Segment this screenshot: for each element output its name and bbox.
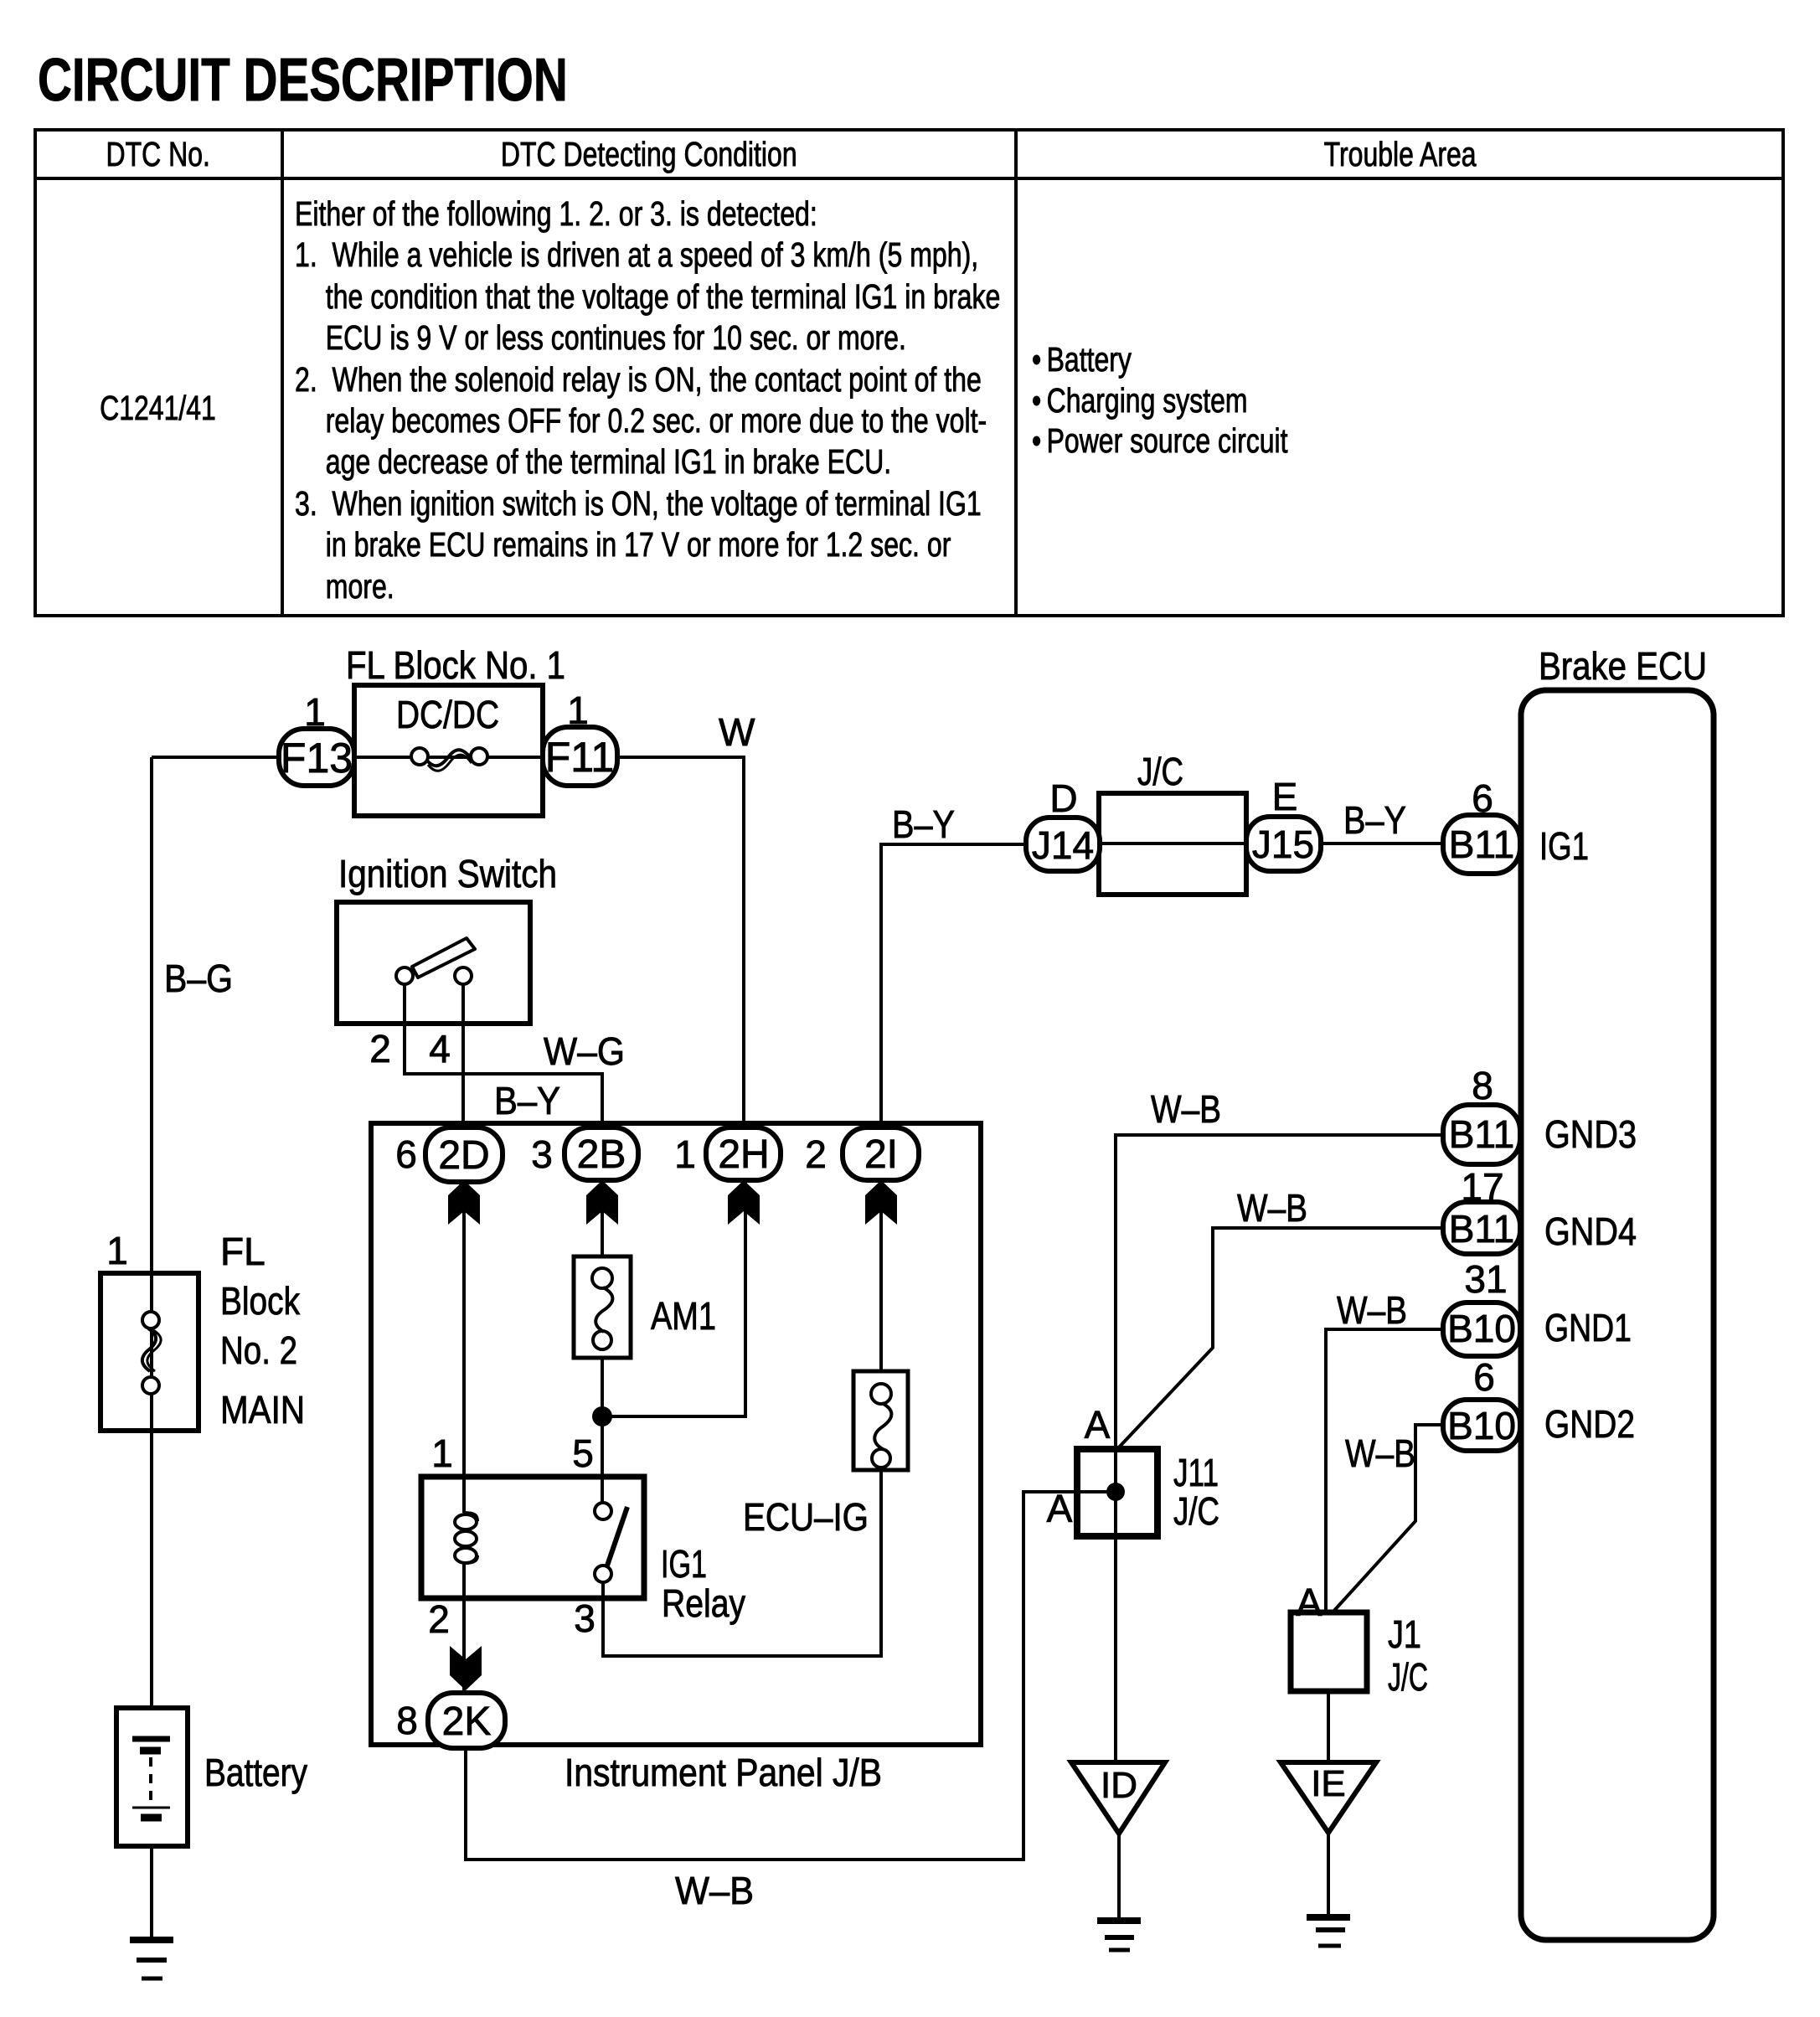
svg-text:GND3: GND3 [1544, 1112, 1637, 1156]
ground symbol below ID [1097, 1921, 1141, 1950]
DC/DC fuse block box (FL Block No. 1) [354, 685, 543, 816]
svg-text:W–B: W–B [1237, 1186, 1307, 1230]
svg-text:E: E [1272, 775, 1298, 818]
svg-text:Instrument Panel J/B: Instrument Panel J/B [565, 1751, 882, 1794]
svg-text:2: 2 [428, 1597, 450, 1641]
wire 2B to fuse AM1 [601, 1182, 604, 1256]
connector arrow up at 2I [865, 1180, 897, 1225]
page title [38, 46, 568, 115]
svg-text:5: 5 [572, 1432, 594, 1475]
connector oval J15 [1246, 817, 1321, 871]
svg-text:3: 3 [574, 1597, 595, 1640]
svg-text:A: A [1297, 1581, 1322, 1624]
svg-text:1: 1 [431, 1432, 453, 1475]
junction connector J11 box [1077, 1449, 1157, 1536]
svg-text:1: 1 [304, 690, 326, 734]
svg-text:6: 6 [1472, 776, 1493, 820]
svg-text:J/C: J/C [1137, 750, 1183, 793]
triangle IE [1281, 1762, 1376, 1833]
wire B-Y 2I to J14 [881, 844, 1063, 1127]
connector oval B11 pin 8 GND3 [1443, 1105, 1520, 1164]
svg-text:B–Y: B–Y [892, 802, 955, 846]
svg-text:2B: 2B [577, 1132, 626, 1177]
svg-text:2: 2 [805, 1132, 827, 1176]
wire branch junction to 2H [602, 1182, 745, 1416]
svg-text:J/C: J/C [1388, 1655, 1428, 1699]
ground symbol below battery [130, 1940, 173, 1978]
svg-text:6: 6 [1473, 1355, 1495, 1399]
wire ignition pin 4 to 2D (B-Y) [461, 976, 465, 1127]
svg-text:AM1: AM1 [651, 1294, 716, 1338]
table column divider 1 [281, 128, 284, 617]
fuse ECU-IG symbol [871, 1384, 891, 1468]
connector oval 2I [843, 1127, 919, 1180]
svg-text:W: W [719, 710, 755, 754]
table header divider [34, 177, 1785, 180]
wire J1 to triangle IE [1327, 1691, 1330, 1762]
connector arrow up at 2D [448, 1180, 480, 1225]
fuse AM1 symbol [592, 1268, 612, 1349]
ignition switch box [337, 902, 530, 1024]
connector oval 2K [428, 1693, 505, 1748]
svg-text:GND1: GND1 [1544, 1306, 1632, 1349]
svg-text:FL: FL [220, 1230, 266, 1273]
wire relay pin 3 to fuse ECU-IG bottom [603, 1470, 881, 1656]
svg-text:B11: B11 [1449, 823, 1514, 866]
cell trouble area list [1032, 339, 1288, 462]
svg-text:1: 1 [106, 1229, 128, 1272]
wire W-B 2K to J11 junction [466, 1492, 1116, 1860]
J/C junction block box (J14/J15) [1099, 793, 1246, 895]
svg-text:J14: J14 [1032, 823, 1094, 867]
fusible link symbol in FL Block No. 2 [142, 1312, 161, 1394]
wire W from F11 to 2H [617, 757, 744, 1127]
svg-text:4: 4 [429, 1027, 451, 1070]
connector oval B10 pin 6 GND2 [1443, 1400, 1520, 1451]
svg-text:J/C: J/C [1173, 1489, 1219, 1533]
wire W-B GND2 diagonal to J1 [1332, 1425, 1482, 1613]
connector oval J14 [1026, 818, 1100, 871]
wire W-B GND1 to J1 [1326, 1329, 1482, 1612]
svg-text:B11: B11 [1449, 1207, 1514, 1251]
svg-text:W–B: W–B [1345, 1432, 1415, 1475]
wire J/C through J14 J15 to B11 IG1 [1063, 842, 1482, 845]
svg-text:IG1: IG1 [1539, 824, 1589, 868]
junction dot at AM1/2H branch [592, 1406, 612, 1426]
wire B-G battery to F13 [152, 757, 279, 1708]
svg-text:W–B: W–B [1337, 1288, 1407, 1332]
connector oval F11 [543, 727, 617, 786]
svg-text:6: 6 [395, 1132, 417, 1176]
svg-text:IG1: IG1 [661, 1542, 707, 1586]
svg-text:8: 8 [1472, 1064, 1493, 1107]
svg-text:1: 1 [674, 1132, 696, 1176]
header cell Trouble Area [1016, 128, 1785, 180]
svg-text:GND4: GND4 [1544, 1210, 1637, 1253]
svg-text:IE: IE [1311, 1763, 1346, 1804]
svg-text:2I: 2I [864, 1132, 898, 1177]
svg-text:2D: 2D [438, 1133, 489, 1178]
svg-text:J15: J15 [1252, 823, 1314, 866]
svg-text:W–B: W–B [1151, 1087, 1221, 1131]
connector oval B11 pin 6 IG1 [1443, 815, 1520, 874]
svg-text:No. 2: No. 2 [220, 1328, 297, 1372]
svg-text:B–G: B–G [164, 957, 233, 1000]
wire battery negative to ground [150, 1846, 153, 1940]
svg-text:3: 3 [531, 1132, 553, 1176]
wire ignition pin 2 to 2B [405, 976, 602, 1127]
svg-text:B–Y: B–Y [1343, 798, 1406, 842]
fusible link symbol in DC/DC: circles and wave [411, 748, 487, 771]
wire relay coil pin 2 to 2K [462, 1563, 466, 1693]
wire W-B GND4 diagonal to J11 [1116, 1228, 1482, 1450]
table outer border [34, 128, 1785, 132]
wire 2D to relay coil pin 1 [462, 1182, 466, 1513]
wire J11 to triangle ID [1114, 1449, 1117, 1762]
relay coil [455, 1513, 477, 1563]
svg-text:ECU–IG: ECU–IG [743, 1495, 869, 1539]
connector arrow up at 2B [586, 1180, 618, 1225]
svg-text:8: 8 [396, 1699, 418, 1742]
svg-text:Relay: Relay [662, 1581, 745, 1625]
FL Block No. 2 box [101, 1273, 198, 1431]
relay switch contacts and lever [595, 1503, 627, 1582]
IG1 relay box [421, 1477, 644, 1598]
wire fusible link inside DC/DC [317, 756, 580, 759]
Brake ECU box [1521, 690, 1714, 1940]
svg-text:W–B: W–B [675, 1869, 754, 1912]
svg-text:W–G: W–G [544, 1029, 625, 1073]
battery cell plates [132, 1739, 170, 1818]
wire W-B GND3 to J11 [1116, 1135, 1482, 1449]
Instrument Panel J/B box [371, 1123, 981, 1745]
ground symbol below IE [1307, 1917, 1350, 1946]
triangle ID [1071, 1762, 1165, 1834]
table column divider 2 [1014, 128, 1018, 617]
svg-text:D: D [1049, 776, 1077, 820]
connector oval 2H [706, 1127, 781, 1180]
header cell DTC No. [34, 128, 282, 180]
svg-text:Brake ECU: Brake ECU [1539, 644, 1707, 688]
junction dot in J11 [1106, 1483, 1125, 1501]
svg-text:ID: ID [1101, 1765, 1137, 1806]
svg-text:A: A [1047, 1487, 1073, 1530]
connector oval 2B [565, 1127, 638, 1180]
battery box [116, 1708, 188, 1846]
svg-text:GND2: GND2 [1544, 1402, 1635, 1446]
svg-text:B10: B10 [1447, 1307, 1516, 1350]
svg-text:F11: F11 [545, 734, 614, 781]
wire triangle ID to ground [1117, 1834, 1121, 1921]
svg-text:J1: J1 [1388, 1612, 1421, 1656]
junction connector J1 box [1291, 1612, 1367, 1691]
svg-text:1: 1 [567, 689, 589, 732]
svg-text:MAIN: MAIN [220, 1388, 305, 1432]
connector oval B11 pin 17 GND4 [1443, 1202, 1520, 1254]
svg-text:B–Y: B–Y [494, 1079, 560, 1122]
svg-text:Ignition Switch: Ignition Switch [338, 852, 557, 895]
svg-text:B10: B10 [1447, 1404, 1516, 1447]
connector oval F13 [279, 729, 354, 786]
connector oval 2D [425, 1127, 503, 1182]
svg-text:17: 17 [1461, 1165, 1503, 1209]
wire triangle IE to ground [1327, 1833, 1330, 1917]
header cell DTC Detecting Condition [282, 128, 1016, 180]
fuse AM1 box [574, 1256, 631, 1358]
svg-text:2: 2 [369, 1027, 391, 1070]
svg-text:2H: 2H [718, 1132, 769, 1177]
svg-text:Battery: Battery [204, 1751, 307, 1794]
wire fuse AM1 to relay pin 5 [601, 1358, 604, 1504]
svg-text:Block: Block [220, 1279, 301, 1323]
fuse ECU-IG box [853, 1371, 908, 1470]
connector oval B10 pin 31 GND1 [1443, 1303, 1520, 1356]
svg-text:F13: F13 [281, 735, 353, 782]
svg-text:B11: B11 [1449, 1112, 1514, 1156]
wire 2I to fuse ECU-IG top [879, 1182, 883, 1371]
cell DTC detecting condition text [295, 193, 1000, 607]
svg-text:J11: J11 [1173, 1451, 1219, 1494]
svg-text:A: A [1085, 1403, 1111, 1447]
svg-text:FL Block No. 1: FL Block No. 1 [346, 643, 565, 687]
connector arrow up at 2H [728, 1180, 760, 1225]
cell C1241/41 [61, 389, 255, 428]
svg-text:31: 31 [1464, 1257, 1507, 1301]
svg-text:2K: 2K [442, 1700, 492, 1744]
connector arrow down at 2K [450, 1646, 482, 1690]
svg-text:DC/DC: DC/DC [396, 693, 499, 736]
ignition switch contacts and lever [396, 938, 475, 984]
